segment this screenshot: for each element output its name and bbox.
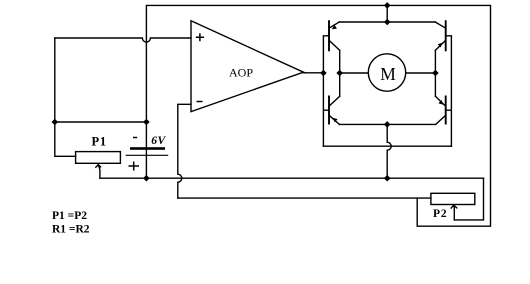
svg-text:M: M [380, 64, 396, 84]
svg-text:P2: P2 [433, 208, 448, 220]
svg-text:P1: P1 [92, 134, 107, 148]
svg-text:R1 =R2: R1 =R2 [52, 224, 90, 236]
svg-text:P1 =P2: P1 =P2 [52, 210, 87, 222]
svg-text:AOP: AOP [229, 65, 253, 79]
svg-text:6V: 6V [151, 135, 166, 147]
